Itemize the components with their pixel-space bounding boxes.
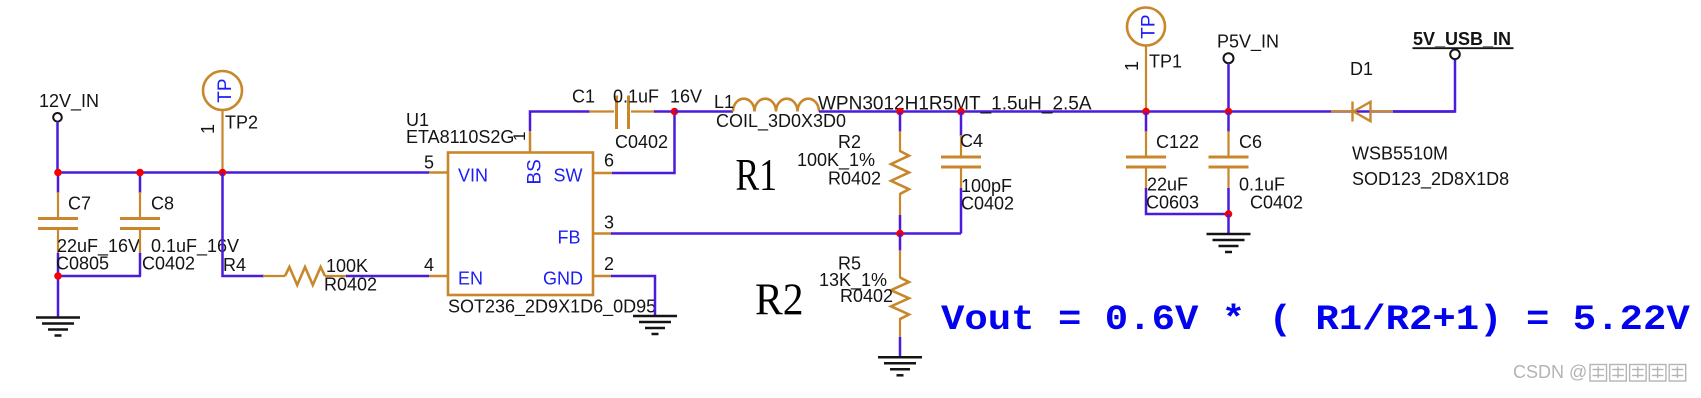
svg-text:R4: R4 (223, 255, 246, 275)
testpoint TP1 (1127, 8, 1165, 46)
svg-text:L1: L1 (714, 92, 734, 112)
svg-text:SW: SW (554, 166, 583, 186)
svg-text:C0402: C0402 (142, 254, 195, 274)
wire C122 to gnd node (1146, 188, 1229, 214)
svg-text:R0402: R0402 (840, 286, 893, 306)
svg-text:TP1: TP1 (1149, 52, 1182, 72)
pin 5 lead (429, 171, 448, 174)
wire C6 stub (1227, 112, 1230, 133)
wire FB net (611, 232, 961, 235)
svg-text:FB: FB (558, 228, 581, 248)
port 12V_IN (53, 113, 62, 122)
svg-text:100K: 100K (326, 256, 368, 276)
svg-text:VIN: VIN (458, 166, 488, 186)
D1 left lead (1331, 110, 1352, 112)
R5 bottom lead (899, 318, 901, 338)
svg-text:R0402: R0402 (828, 168, 881, 188)
capacitor C8 top lead (139, 192, 141, 219)
wire C7 top (57, 173, 60, 194)
svg-text:1: 1 (198, 124, 218, 134)
svg-text:0.1uF: 0.1uF (613, 87, 659, 107)
capacitor C1 (617, 96, 629, 130)
C1 left lead (589, 110, 614, 112)
testpoint TP2 (203, 71, 242, 110)
wire R2 stub (899, 112, 902, 133)
BS pin lead (529, 131, 532, 153)
C122 bottom lead (1145, 167, 1147, 189)
svg-text:C0805: C0805 (56, 254, 109, 274)
capacitor C6 (1209, 157, 1249, 167)
svg-text:BS: BS (525, 159, 546, 184)
wire R4 to EN (346, 275, 429, 278)
svg-text:D1: D1 (1350, 59, 1373, 79)
wire C8 bottom drop (139, 253, 142, 276)
C6 bottom lead (1227, 167, 1229, 189)
svg-text:1: 1 (510, 132, 529, 141)
svg-text:0.1uF: 0.1uF (1239, 175, 1285, 195)
pin 2 lead (593, 275, 612, 278)
wire C8 top (139, 173, 142, 194)
svg-text:SOT236_2D9X1D6_0D95: SOT236_2D9X1D6_0D95 (448, 297, 656, 318)
wire 12V to R4 (223, 173, 265, 277)
wire C4 stub (960, 112, 963, 137)
TP2 lead (221, 110, 223, 173)
wire L1 to output rail (819, 110, 1455, 113)
op-amp U1 ETA8110S2G body (448, 153, 593, 296)
svg-text:Vout = 0.6V * ( R1/R2+1) = 5.2: Vout = 0.6V * ( R1/R2+1) = 5.22V (941, 301, 1691, 341)
port 5V_USB_IN (1450, 50, 1460, 60)
svg-text:TP: TP (1139, 14, 1160, 38)
svg-text:3: 3 (604, 213, 614, 233)
capacitor C7 top lead (57, 192, 59, 219)
svg-text:TP: TP (215, 78, 236, 102)
capacitor C7 (38, 219, 78, 229)
ground GND2 (633, 316, 677, 334)
C4 top lead (960, 135, 962, 157)
wire SW to L1 (675, 110, 734, 113)
wire R5 stub (899, 234, 902, 252)
ground GND3 (878, 357, 922, 375)
D1 right lead (1371, 110, 1395, 112)
svg-text:WSB5510M: WSB5510M (1352, 144, 1448, 164)
svg-text:6: 6 (604, 151, 614, 171)
annotation Vout formula (941, 301, 1691, 341)
R2 bottom lead (899, 193, 901, 216)
C6 top lead (1227, 131, 1229, 157)
svg-text:16V: 16V (670, 87, 702, 107)
wire USB riser (1393, 59, 1455, 112)
wire C7 to gnd node (57, 253, 60, 276)
inductor L1 (733, 99, 819, 112)
C122 top lead (1145, 131, 1147, 157)
svg-text:R0402: R0402 (324, 275, 377, 295)
R4 right lead (325, 275, 347, 277)
svg-text:C6: C6 (1239, 132, 1262, 152)
svg-text:C0402: C0402 (615, 132, 668, 152)
wire SW route (612, 112, 675, 174)
capacitor C8 (120, 219, 160, 229)
capacitor C4 (941, 157, 981, 167)
junction gnd node right (1225, 210, 1233, 218)
junction 12V/C7 (54, 169, 62, 177)
pin 4 lead (429, 275, 448, 278)
C4 bottom lead (960, 167, 962, 189)
junction R2 top (896, 108, 904, 116)
svg-text:12V_IN: 12V_IN (39, 91, 99, 112)
wire P5V drop (1227, 63, 1230, 111)
resistor R2 (891, 151, 909, 194)
junction TP1 (1142, 108, 1150, 116)
svg-text:5V_USB_IN: 5V_USB_IN (1413, 29, 1511, 49)
svg-text:R2: R2 (755, 275, 804, 325)
wire to GND4 (1227, 214, 1230, 234)
svg-text:C0402: C0402 (961, 194, 1014, 214)
junction TP2 (219, 169, 227, 177)
svg-text:SOD123_2D8X1D8: SOD123_2D8X1D8 (1352, 169, 1509, 190)
svg-text:TP2: TP2 (225, 113, 258, 133)
R4 left lead (263, 275, 285, 277)
junction C4 top (957, 108, 965, 116)
capacitor C122 (1126, 157, 1166, 167)
junction 12V/C8 (136, 169, 144, 177)
wire 12V_IN vertical (56, 122, 59, 173)
junction FB/R2/R5 (896, 230, 904, 238)
ground GND4 (1207, 234, 1251, 252)
pin 6 lead (593, 172, 612, 175)
ground GND1 (36, 318, 80, 336)
wire 12V rail (56, 171, 429, 174)
wire cap bottoms (57, 275, 141, 278)
wire R5 to gnd (899, 337, 902, 357)
capacitor C7 bottom lead (57, 229, 59, 255)
svg-text:5: 5 (424, 153, 434, 173)
wire to GND1 (57, 276, 60, 317)
svg-text:C8: C8 (151, 194, 174, 214)
svg-text:4: 4 (424, 255, 434, 275)
C1 right lead (631, 110, 655, 112)
capacitor C8 bottom lead (139, 229, 141, 255)
svg-text:C4: C4 (960, 131, 983, 151)
svg-text:C1: C1 (572, 87, 595, 107)
R5 top lead (899, 250, 901, 278)
svg-text:C7: C7 (68, 194, 91, 214)
wire C122 stub (1145, 112, 1148, 133)
svg-text:WPN3012H1R5MT_1.5uH_2.5A: WPN3012H1R5MT_1.5uH_2.5A (818, 93, 1092, 114)
port P5V_IN (1224, 53, 1234, 63)
junction C7/C8/gnd (54, 272, 62, 280)
junction SW/C1/L1 (671, 108, 679, 116)
wire GND pin to gnd (611, 276, 655, 316)
svg-text:CSDN @: CSDN @ (1513, 362, 1587, 382)
resistor R5 (891, 278, 909, 320)
junction P5V (1225, 108, 1233, 116)
wire C6 to gnd node (1227, 188, 1230, 215)
resistor R4 (285, 267, 325, 285)
svg-text:2: 2 (604, 254, 614, 274)
svg-text:C0603: C0603 (1146, 193, 1199, 213)
svg-text:GND: GND (543, 268, 583, 288)
svg-text:C122: C122 (1156, 132, 1199, 152)
svg-text:C0402: C0402 (1250, 193, 1303, 213)
svg-text:P5V_IN: P5V_IN (1217, 32, 1279, 53)
diode D1 (1353, 102, 1371, 122)
svg-text:22uF: 22uF (1147, 175, 1188, 195)
R2 top lead (899, 131, 901, 152)
svg-text:R2: R2 (838, 132, 861, 152)
wire C4 to FB (960, 188, 963, 234)
svg-text:1: 1 (1122, 61, 1142, 71)
wire C1 to SW node (654, 110, 675, 113)
TP1 lead (1145, 46, 1147, 112)
wire R2 to FB (899, 215, 902, 234)
wire BS to C1 (530, 112, 590, 132)
svg-text:EN: EN (458, 268, 483, 288)
svg-text:ETA8110S2G: ETA8110S2G (406, 127, 514, 147)
svg-text:R1: R1 (736, 150, 778, 200)
pin 3 lead (593, 232, 612, 235)
